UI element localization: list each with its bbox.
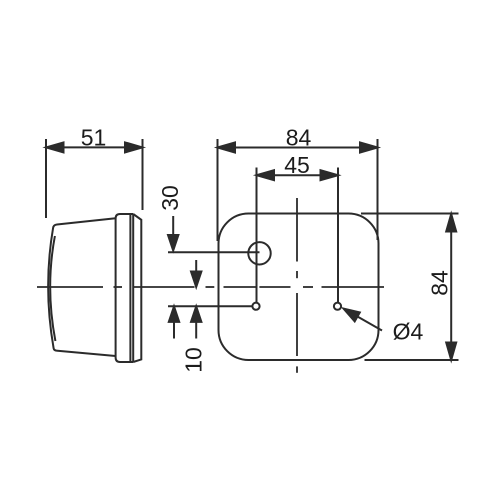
dimension 45 extension lines [256,168,258,303]
vertical centerline [296,198,298,373]
svg-text:30: 30 [157,185,183,211]
dimension 84 top extension lines [217,139,219,241]
right mounting hole [334,303,341,310]
dimension 30 lower arrow [169,306,179,338]
svg-text:Ø4: Ø4 [393,319,424,345]
horizontal centerline [37,286,384,288]
plate inner vertical line 1 [129,214,131,362]
lamp mounting plate side (3d edge) [133,214,141,362]
dimension 84 right line [446,214,456,360]
lamp lens inner contour arc [50,236,55,341]
plate inner vertical line 2 [132,214,134,362]
leader line to hole center height [168,305,252,307]
svg-text:10: 10 [180,347,206,373]
dimension 84 right extension lines [361,213,459,215]
leader line for hole diameter [344,309,383,331]
svg-text:51: 51 [81,125,107,151]
leader line to circle center [168,251,260,253]
dimension 45 line [257,170,339,180]
dimension 30 upper arrow [168,216,178,251]
dimension 51 line [46,142,143,152]
front view rounded square body [219,214,379,361]
svg-text:84: 84 [286,125,312,151]
svg-text:84: 84 [426,270,452,296]
lamp body side view outline [48,218,115,356]
left mounting hole [252,303,259,310]
dimension 51 extension lines [45,139,47,218]
pilot circle [248,242,270,264]
dimension 10 lower arrow [191,306,201,338]
dimension 84 top line [218,143,378,153]
dimension 10 upper arrow [191,260,201,287]
svg-text:45: 45 [284,152,310,178]
lamp mounting plate front face [116,214,134,362]
